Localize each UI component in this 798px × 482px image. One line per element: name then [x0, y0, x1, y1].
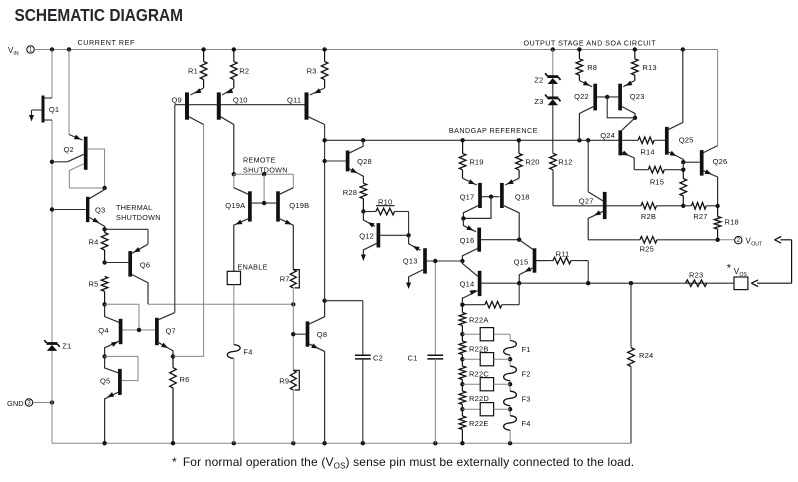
svg-text:Q22: Q22: [574, 92, 589, 101]
label R1: [188, 66, 198, 75]
svg-text:F1: F1: [522, 345, 531, 354]
capacitor C1: [427, 261, 443, 443]
resistor R1: [200, 50, 207, 89]
label Z2: [534, 76, 543, 85]
wire to Q4Q7 base: [105, 304, 139, 330]
svg-text:Q14: Q14: [460, 279, 475, 288]
transistor Q8: [293, 301, 327, 444]
resistor R27: [683, 203, 717, 210]
svg-text:R25: R25: [640, 245, 654, 254]
label F3: [522, 394, 531, 403]
svg-text:Q25: Q25: [679, 135, 694, 144]
label R20: [525, 158, 539, 167]
svg-text:REMOTE: REMOTE: [243, 156, 276, 165]
trim link row1: [462, 328, 510, 341]
transistor Q28: [325, 140, 372, 183]
svg-text:*For normal operation the (VOS: *For normal operation the (VOS) sense pi…: [172, 455, 634, 471]
wire Z2 Z3: [552, 83, 554, 97]
fuse F1: [504, 341, 517, 356]
capacitor C2: [325, 301, 371, 444]
fuse F2: [504, 366, 517, 381]
node Q7 emitter: [171, 125, 204, 359]
svg-text:R5: R5: [89, 279, 99, 288]
label OUTPUT STAGE AND SOA CIRCUIT: [524, 38, 657, 47]
transistor Q4: [98, 304, 155, 356]
label R2B: [641, 212, 656, 221]
svg-text:C1: C1: [408, 354, 418, 363]
svg-text:Q28: Q28: [357, 157, 372, 166]
resistor R22D: [459, 382, 466, 409]
svg-text:F3: F3: [522, 394, 531, 403]
resistor R20: [516, 140, 523, 178]
svg-text:Q5: Q5: [100, 377, 110, 386]
transistor Q10: [219, 88, 248, 174]
label R8: [587, 63, 597, 72]
trim link row4: [462, 403, 510, 416]
transistor Q19B: [278, 188, 309, 270]
label R5: [89, 279, 99, 288]
transistor Q5: [100, 356, 120, 443]
label BANDGAP REFERENCE: [449, 126, 538, 135]
zener Z2: [545, 73, 560, 84]
wire fuse to ground: [233, 358, 235, 443]
wire Q6 emitter line: [148, 302, 295, 306]
transistor Q2: [52, 135, 107, 191]
resistor R6: [170, 356, 177, 443]
label R22C: [469, 369, 489, 378]
resistor R22E: [459, 407, 466, 443]
label F4: [522, 419, 531, 428]
svg-text:R22C: R22C: [469, 369, 489, 378]
resistor R13: [632, 50, 639, 81]
wire Q9 Q10 Q11 base line: [175, 104, 305, 106]
svg-text:Q8: Q8: [317, 330, 327, 339]
wire F2 to F3: [508, 381, 512, 392]
label CURRENT REF: [78, 38, 135, 47]
transistor Q13: [403, 235, 463, 289]
footnote: [172, 455, 634, 471]
svg-text:R1: R1: [188, 66, 198, 75]
label R9: [279, 377, 289, 386]
transistor Q19A: [225, 174, 276, 271]
svg-text:ENABLE: ENABLE: [238, 262, 268, 271]
svg-text:Q18: Q18: [515, 192, 530, 201]
resistor R5: [101, 276, 108, 304]
svg-text:Q19A: Q19A: [225, 201, 245, 210]
svg-text:R7: R7: [280, 275, 290, 284]
svg-text:R9: R9: [279, 377, 289, 386]
zener Z3: [545, 95, 560, 106]
wire bandgap rail: [322, 138, 590, 142]
svg-text:OUT: OUT: [751, 241, 763, 247]
label R11: [556, 250, 570, 259]
resistor R10: [363, 208, 408, 235]
svg-text:SHUTDOWN: SHUTDOWN: [116, 213, 161, 222]
svg-text:BANDGAP REFERENCE: BANDGAP REFERENCE: [449, 126, 538, 135]
svg-text:R13: R13: [642, 63, 656, 72]
resistor Q14 emitter: [460, 301, 519, 308]
label R6: [180, 375, 190, 384]
svg-text:R4: R4: [89, 237, 99, 246]
svg-text:R19: R19: [469, 158, 483, 167]
wire F4 to ground: [509, 430, 511, 443]
resistor R2B: [641, 203, 683, 210]
fuse F4 left: [227, 345, 240, 359]
svg-text:Q11: Q11: [287, 95, 301, 104]
trim link row2: [462, 353, 510, 366]
svg-text:Q27: Q27: [579, 197, 594, 206]
svg-text:R18: R18: [725, 218, 739, 227]
label F2: [522, 370, 531, 379]
label R15: [650, 177, 664, 186]
resistor R17: [680, 170, 687, 206]
label C2: [373, 354, 383, 363]
svg-text:R20: R20: [525, 158, 539, 167]
resistor R7: [290, 270, 299, 288]
wire left column: [50, 50, 54, 444]
svg-text:R2B: R2B: [641, 212, 656, 221]
pin GND: [7, 399, 33, 408]
resistor R3: [321, 50, 328, 89]
resistor R15: [634, 166, 683, 173]
label R22B: [469, 345, 489, 354]
transistor Q14: [460, 261, 520, 305]
svg-text:R22D: R22D: [469, 394, 489, 403]
transistor Q1: [29, 96, 59, 123]
label ENABLE: [238, 262, 268, 271]
wire ground rail: [52, 441, 631, 445]
wire F3 to F4: [508, 406, 512, 416]
wire Q22Q23 base loop: [607, 97, 637, 120]
svg-text:OUTPUT STAGE AND SOA CIRCUIT: OUTPUT STAGE AND SOA CIRCUIT: [524, 38, 657, 47]
label R4: [89, 237, 99, 246]
node R28 bottom: [361, 209, 365, 213]
wire R7 to R9: [291, 288, 295, 370]
node R4 R5: [102, 260, 106, 264]
svg-text:R14: R14: [640, 148, 654, 157]
label R27: [693, 212, 707, 221]
label R22D: [469, 394, 489, 403]
transistor Q17: [460, 178, 500, 220]
svg-text:R6: R6: [180, 375, 190, 384]
svg-text:Q4: Q4: [98, 326, 108, 335]
transistor Q9: [171, 88, 203, 125]
node Q25 emitter: [681, 160, 700, 172]
svg-text:F2: F2: [522, 370, 531, 379]
label R7: [280, 275, 290, 284]
label R25: [640, 245, 654, 254]
label R22E: [469, 419, 489, 428]
svg-text:R27: R27: [693, 212, 707, 221]
label R28: [343, 188, 357, 197]
svg-text:Q13: Q13: [403, 256, 418, 265]
svg-text:*: *: [727, 263, 732, 275]
wire VIN stub: [34, 49, 52, 51]
svg-text:Q15: Q15: [514, 257, 529, 266]
svg-text:Q6: Q6: [140, 260, 150, 269]
transistor Q23: [620, 81, 644, 118]
transistor Q26: [702, 146, 728, 206]
resistor R28: [360, 183, 367, 211]
svg-text:R22E: R22E: [469, 419, 489, 428]
resistor R25: [640, 237, 718, 244]
trim link row3: [462, 378, 510, 391]
wire Q2 emitter: [68, 50, 70, 135]
title text SCHEMATIC DIAGRAM: [15, 5, 184, 25]
pin VOUT: [735, 236, 763, 247]
wire VOS line: [519, 281, 734, 285]
pin VIN: [8, 46, 34, 57]
label R23: [689, 270, 703, 279]
label Z3: [534, 97, 543, 106]
label F4 left: [243, 348, 252, 357]
label REMOTE SHUTDOWN: [243, 156, 288, 175]
svg-text:THERMAL: THERMAL: [116, 203, 152, 212]
resistor R11: [536, 257, 588, 283]
node Q8 collector: [322, 140, 326, 303]
resistor R22A: [459, 305, 466, 335]
svg-text:R3: R3: [307, 66, 317, 75]
transistor Q27: [553, 140, 641, 240]
wire R9 to ground: [292, 390, 294, 443]
transistor Q24: [588, 118, 638, 170]
transistor Q22: [574, 81, 618, 141]
svg-text:Z1: Z1: [62, 341, 71, 350]
label R3: [307, 66, 317, 75]
svg-text:CURRENT REF: CURRENT REF: [78, 38, 135, 47]
svg-text:R24: R24: [639, 351, 653, 360]
node Q3 emitter: [102, 227, 148, 244]
resistor R22B: [459, 332, 466, 359]
fuse F4: [504, 416, 517, 431]
svg-text:SCHEMATIC DIAGRAM: SCHEMATIC DIAGRAM: [15, 5, 184, 25]
svg-text:R2: R2: [239, 66, 249, 75]
transistor Q16: [460, 218, 518, 263]
svg-text:OS: OS: [739, 272, 747, 278]
resistor R8: [576, 50, 583, 81]
resistor R14: [638, 137, 665, 144]
label R18: [725, 218, 739, 227]
wire F1 to F2: [508, 355, 512, 366]
svg-text:IN: IN: [13, 51, 18, 57]
transistor Q6: [105, 244, 151, 304]
wire GND stub: [33, 400, 55, 404]
resistor R19: [459, 140, 466, 178]
label R24: [639, 351, 653, 360]
wire Z column top: [552, 50, 554, 77]
resistor R18: [714, 206, 721, 240]
svg-text:Q7: Q7: [165, 326, 175, 335]
resistor R24: [628, 283, 635, 443]
wire Q15 emitter col: [517, 281, 521, 305]
enable box: [227, 271, 240, 284]
svg-text:Q24: Q24: [600, 131, 615, 140]
transistor Q18: [502, 178, 530, 240]
wire enable to fuse: [233, 285, 235, 345]
pin VOS box: [727, 263, 748, 290]
transistor Q7: [157, 105, 176, 357]
label THERMAL SHUTDOWN: [116, 203, 161, 222]
resistor R4: [101, 229, 108, 262]
svg-text:Z3: Z3: [534, 97, 543, 106]
zener Z1: [44, 340, 59, 351]
svg-text:Q23: Q23: [630, 92, 645, 101]
transistor Q11: [287, 88, 325, 140]
wire VIN top rail: [50, 47, 718, 145]
svg-text:Q2: Q2: [63, 145, 73, 154]
svg-text:C2: C2: [373, 354, 383, 363]
label R14: [640, 148, 654, 157]
label R10: [376, 197, 395, 206]
svg-text:R15: R15: [650, 177, 664, 186]
svg-text:R22A: R22A: [469, 315, 489, 324]
svg-text:Q26: Q26: [713, 157, 728, 166]
svg-text:R28: R28: [343, 188, 357, 197]
svg-text:F4: F4: [243, 348, 252, 357]
label R2: [239, 66, 249, 75]
label R22A: [469, 315, 489, 324]
wire VOUT line: [588, 238, 720, 242]
svg-text:R12: R12: [558, 158, 572, 167]
svg-text:R11: R11: [556, 250, 570, 259]
wire Z3 to R12: [552, 105, 554, 154]
resistor R9: [290, 370, 299, 390]
wire remote line: [232, 172, 294, 203]
fuse F3: [504, 391, 517, 406]
resistor R23: [686, 280, 707, 287]
external sense loop: [751, 237, 791, 287]
node Q4 emitter: [102, 354, 138, 380]
transistor Q3: [52, 188, 105, 229]
label R12: [558, 158, 572, 167]
label F1: [522, 345, 531, 354]
svg-text:R10: R10: [378, 197, 392, 206]
svg-text:Q9: Q9: [171, 95, 181, 104]
label Z1: [62, 341, 71, 350]
svg-text:Z2: Z2: [534, 76, 543, 85]
svg-text:Q3: Q3: [95, 206, 105, 215]
label R19: [469, 158, 483, 167]
wire VOUT stub: [718, 239, 735, 241]
svg-text:Q12: Q12: [359, 231, 374, 240]
svg-text:Q19B: Q19B: [289, 201, 309, 210]
svg-text:Q10: Q10: [233, 95, 248, 104]
label C1: [408, 354, 418, 363]
svg-text:Q16: Q16: [460, 236, 475, 245]
transistor Q12: [359, 212, 411, 262]
svg-text:Q17: Q17: [460, 192, 475, 201]
node R17 bottom: [681, 204, 685, 208]
resistor R22C: [459, 357, 466, 384]
transistor Q25: [667, 50, 694, 163]
svg-text:R23: R23: [689, 270, 703, 279]
node R5 bottom: [102, 302, 106, 306]
resistor R2: [231, 50, 238, 89]
svg-text:R8: R8: [587, 63, 597, 72]
resistor R12: [550, 153, 557, 205]
svg-text:GND: GND: [7, 399, 24, 408]
svg-text:Q1: Q1: [49, 105, 59, 114]
svg-text:F4: F4: [522, 419, 531, 428]
node R27 R18: [715, 204, 719, 208]
transistor Q15: [514, 238, 547, 284]
label R13: [642, 63, 656, 72]
